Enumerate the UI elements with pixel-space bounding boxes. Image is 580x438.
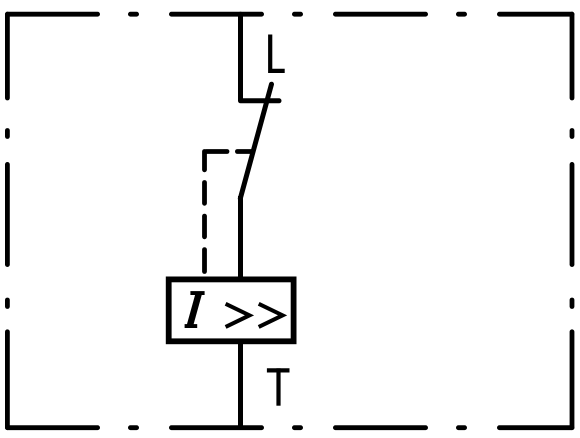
wire from top boundary to fixed contact (with jog to the right) [241,14,280,101]
enclosure boundary left edge (dash-dot) [5,14,10,428]
terminal label T [267,368,290,405]
enclosure boundary bottom edge (dash-dot) [7,425,572,430]
label >> chevron 2 [259,304,283,327]
mechanical linkage vertical (dashed) [202,152,207,272]
enclosure boundary top edge (dash-dot) [7,12,572,17]
label I (current) inside box: italic serif I drawn as strokes [185,293,205,326]
wire from release box to bottom boundary [238,341,243,427]
switch blade (moving contact) [240,84,271,198]
wire from blade down to release box [238,196,243,280]
overcurrent release box U1 [169,279,294,341]
label >> (instantaneous overcurrent) chevron 1 [226,304,250,327]
terminal label L [270,35,285,71]
mechanical linkage horizontal (dashed) [206,149,251,154]
enclosure boundary right edge (dash-dot) [570,14,575,428]
